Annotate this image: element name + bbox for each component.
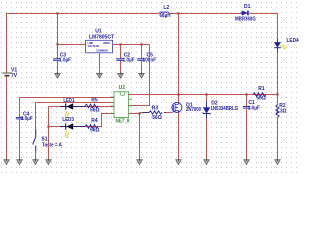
capacitor C5 100nF xyxy=(137,45,156,74)
svg-text:R5: R5 xyxy=(91,98,98,104)
svg-text:U1: U1 xyxy=(95,28,102,34)
wire row2 xyxy=(49,114,115,127)
inductor L2 xyxy=(160,5,171,19)
svg-text:68µH: 68µH xyxy=(160,13,171,19)
node junction D2 xyxy=(205,93,207,95)
ground below C2 xyxy=(118,73,124,79)
svg-text:LM7805CT: LM7805CT xyxy=(89,35,114,41)
svg-text:VREG: VREG xyxy=(103,42,110,45)
node junction drain-rail xyxy=(177,93,179,95)
wire U1 common to ground xyxy=(99,53,101,74)
op U2 box xyxy=(111,85,133,124)
svg-text:U2: U2 xyxy=(119,85,126,91)
wire top rail mid xyxy=(169,13,242,15)
ground below C4 xyxy=(17,159,23,165)
svg-text:R4: R4 xyxy=(91,118,98,124)
ground below U2 xyxy=(137,159,143,165)
wire switch-node rail xyxy=(129,94,278,96)
svg-text:Taste = A: Taste = A xyxy=(42,142,62,148)
svg-text:LED4: LED4 xyxy=(287,38,299,44)
switch S1 xyxy=(33,129,63,152)
ground below C3 xyxy=(55,73,61,79)
resistor R4 xyxy=(85,118,100,134)
resistor R5 xyxy=(85,98,100,114)
ground below C5 xyxy=(139,73,145,79)
svg-text:1.0µF: 1.0µF xyxy=(21,116,33,122)
ground below D2 xyxy=(204,159,210,165)
wire C4 branch xyxy=(20,98,115,118)
node junction drain tap xyxy=(177,12,179,14)
node junction C2 xyxy=(119,43,121,45)
wire +5V down to U2 xyxy=(129,45,150,106)
LED4 xyxy=(274,38,299,52)
wire row1 xyxy=(49,106,115,108)
svg-text:L2: L2 xyxy=(163,5,169,11)
wire battery to ground xyxy=(6,76,8,160)
node junction R2 xyxy=(276,93,278,95)
node junction C3 tap xyxy=(56,43,58,45)
capacitor C2 xyxy=(116,45,134,74)
svg-text:56Ω: 56Ω xyxy=(152,115,162,121)
diode D2 zener xyxy=(203,95,238,161)
node junction C5 xyxy=(140,43,142,45)
ground below V1 xyxy=(4,159,10,165)
svg-text:LED1: LED1 xyxy=(63,98,74,104)
svg-text:1.3Ω: 1.3Ω xyxy=(276,109,287,115)
svg-text:56Ω: 56Ω xyxy=(256,96,266,102)
wire C3 branch from rail xyxy=(58,14,86,45)
ground below row drop xyxy=(46,159,52,165)
wire U1 output rail xyxy=(113,44,150,46)
ground below R2 xyxy=(275,159,281,165)
svg-text:1.0µF: 1.0µF xyxy=(59,58,71,64)
svg-text:1.0µF: 1.0µF xyxy=(123,58,135,64)
resistor R1 xyxy=(253,86,266,102)
svg-text:D1: D1 xyxy=(244,4,251,10)
svg-text:1.0µF: 1.0µF xyxy=(248,105,260,111)
node junction row2 xyxy=(47,125,49,127)
svg-text:COMMON: COMMON xyxy=(96,50,108,53)
resistor R2 xyxy=(276,95,287,161)
svg-text:LED3: LED3 xyxy=(62,117,74,123)
wire S1 to ground xyxy=(35,152,37,161)
svg-text:7V: 7V xyxy=(11,73,18,79)
wire right vertical below LED4 xyxy=(277,51,279,96)
resistor R3 xyxy=(140,105,172,121)
wire switch-node vertical xyxy=(178,14,180,103)
node junction R3 xyxy=(138,112,140,114)
op U1 regulator box xyxy=(86,28,114,53)
wire row1 left drop xyxy=(48,107,50,161)
wire S1 branch xyxy=(36,103,115,130)
transistor Q1 xyxy=(172,102,201,113)
svg-text:R3: R3 xyxy=(152,105,159,111)
svg-text:56Ω: 56Ω xyxy=(90,128,100,134)
svg-text:1N5334BRLG: 1N5334BRLG xyxy=(211,106,239,112)
ground below U1 xyxy=(97,73,103,79)
svg-text:NET_8: NET_8 xyxy=(116,118,130,124)
node junction C1 xyxy=(245,93,247,95)
svg-text:MBR360G: MBR360G xyxy=(235,17,256,23)
node junction rail C3 xyxy=(56,12,58,14)
svg-text:2N7000: 2N7000 xyxy=(186,107,201,113)
wire top rail left xyxy=(7,14,160,73)
battery V1 xyxy=(2,67,17,79)
wire U2 gnd pin xyxy=(129,114,140,161)
capacitor C1 xyxy=(243,95,260,161)
wire top rail right xyxy=(250,14,278,39)
ground below C1 xyxy=(244,159,250,165)
LED1 xyxy=(60,98,86,118)
capacitor C3 xyxy=(53,45,71,74)
capacitor C4 xyxy=(16,112,33,161)
LED3 xyxy=(60,117,86,138)
wire Q1 source to ground xyxy=(178,112,180,160)
svg-text:VOLTAGE: VOLTAGE xyxy=(88,45,100,48)
ground below Q1 xyxy=(176,159,182,165)
diode D1 xyxy=(235,4,256,22)
svg-text:56Ω: 56Ω xyxy=(90,107,100,113)
ground below S1 xyxy=(33,159,39,165)
svg-text:R1: R1 xyxy=(258,86,265,92)
